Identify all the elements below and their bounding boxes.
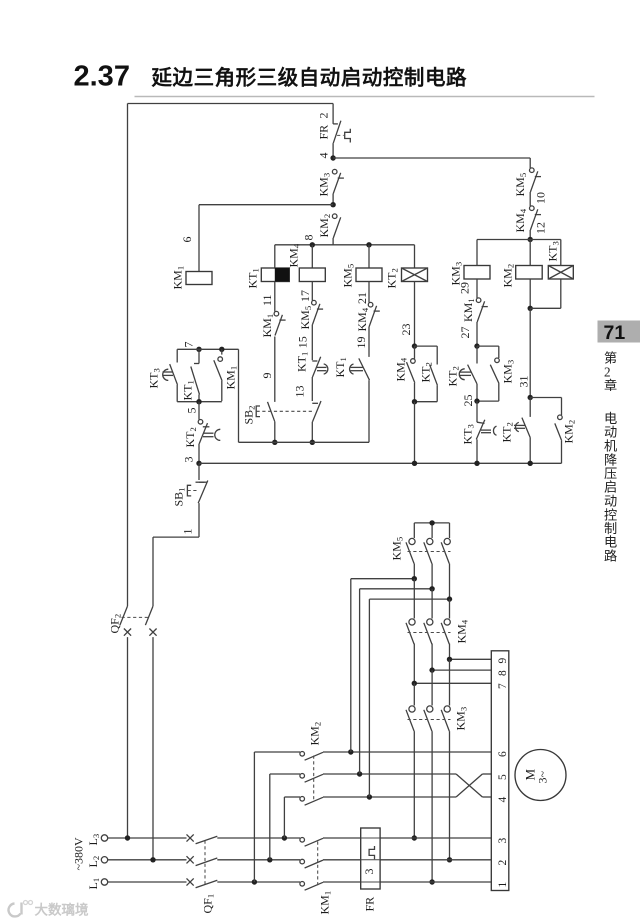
contactor KM2 main contacts bbox=[254, 722, 323, 805]
NC contact linked to SB2 (13) bbox=[312, 401, 321, 442]
terminal block bbox=[491, 651, 509, 891]
wire phase L2 segment 3 bbox=[323, 859, 491, 861]
svg-text:8: 8 bbox=[302, 235, 316, 241]
wire terminal 7 bbox=[414, 644, 491, 684]
NO contact KM2 parallel seal bbox=[530, 398, 576, 464]
junction KM5-KM4 right bbox=[447, 596, 452, 601]
NC delay contact KT1 (19) bbox=[333, 337, 370, 443]
wire bus above coils KM3 KM2 KT3 bbox=[477, 239, 561, 241]
wire riser to KM5 left bbox=[350, 579, 352, 752]
wire phase L1 segment 2 bbox=[217, 881, 300, 883]
junction node 27 bbox=[474, 343, 479, 348]
wire phase L3 segment 1 bbox=[108, 837, 187, 839]
wire KM3 right to L2 bbox=[449, 731, 451, 860]
junction bus8 at KM4 coil bbox=[310, 242, 315, 247]
junction node 5 bbox=[185, 399, 202, 414]
svg-text:31: 31 bbox=[517, 376, 531, 388]
NC contact KM4 parallel branch bbox=[394, 346, 416, 402]
svg-text:动: 动 bbox=[604, 494, 617, 509]
svg-text:动: 动 bbox=[604, 425, 617, 440]
svg-text:3: 3 bbox=[362, 869, 376, 875]
svg-text:2: 2 bbox=[497, 860, 509, 866]
circuit breaker QF2 bbox=[108, 606, 157, 636]
NO contact KM5 (10) on right branch bbox=[513, 158, 548, 206]
wire node23 to bus bbox=[414, 402, 416, 464]
svg-text:10: 10 bbox=[534, 192, 548, 204]
wire KM3 left to L3 bbox=[413, 731, 415, 838]
svg-text:1: 1 bbox=[181, 529, 195, 535]
thermal relay FR heater box bbox=[361, 828, 380, 912]
NO contact KM1 (11) under KT1 coil bbox=[260, 282, 286, 402]
wire bus8 drop to KT1 coil bbox=[274, 245, 276, 268]
junction SB1 rail on L2 bbox=[150, 857, 155, 862]
supply terminal L1 bbox=[86, 878, 108, 890]
junction contact13 bottom bbox=[310, 440, 315, 445]
supply terminal L3 bbox=[86, 834, 108, 846]
NC delay contact KT2 (node5 to node3) bbox=[183, 402, 220, 464]
watermark logo bbox=[9, 901, 89, 918]
NO contact KM1 self-seal parallel bbox=[177, 349, 238, 401]
svg-text:延边三角形三级自动启动控制电路: 延边三角形三级自动启动控制电路 bbox=[151, 66, 468, 90]
svg-text:机: 机 bbox=[604, 439, 617, 454]
svg-text:6: 6 bbox=[180, 237, 194, 243]
junction node7 KM1 branch bbox=[219, 347, 224, 352]
motor M 3~ bbox=[515, 750, 566, 801]
svg-text:15: 15 bbox=[295, 336, 309, 348]
time relay coil KT2 (box with X) bbox=[385, 268, 428, 289]
supply terminal L2 bbox=[86, 856, 108, 868]
wire phase L1 segment 1 bbox=[108, 881, 187, 883]
junction riser7 on wire6 bbox=[348, 749, 353, 754]
junction bus at rung23 bbox=[412, 461, 417, 466]
svg-text:5: 5 bbox=[185, 408, 199, 414]
junction KM3 middle on L1 bbox=[429, 879, 434, 884]
svg-text:大数璃境: 大数璃境 bbox=[35, 902, 89, 918]
wire top rail bbox=[128, 103, 334, 105]
wire terminal 9 bbox=[450, 644, 492, 660]
junction riser9 on wire4 bbox=[367, 794, 372, 799]
wire 6 from KM2 c1 to terminal 6 bbox=[323, 751, 491, 753]
junction node 6 bbox=[330, 202, 335, 207]
svg-text:2: 2 bbox=[317, 113, 331, 119]
wire left rail upper bbox=[127, 104, 129, 607]
wire crossover 4 to 5 bbox=[456, 774, 482, 797]
NO contact KM3 parallel right bbox=[477, 346, 516, 401]
contactor coil KM5 bbox=[341, 264, 383, 288]
junction node 23 bbox=[412, 343, 417, 348]
wire QF2 left pole down bbox=[127, 637, 129, 838]
svg-text:5: 5 bbox=[497, 774, 509, 780]
contact KT2 parallel branch bbox=[415, 346, 438, 402]
svg-text:4: 4 bbox=[317, 153, 331, 159]
wire SB1 to QF2 right pole bbox=[153, 536, 199, 538]
wire bus8 drop to KT2 coil bbox=[414, 245, 416, 268]
wire riser to KM5 right bbox=[368, 599, 370, 797]
NC delay contact KT3 (bottom of rung 27) bbox=[461, 401, 497, 463]
contactor coil KM4 bbox=[287, 243, 326, 281]
junction SB2 bottom bbox=[272, 440, 277, 445]
wire KT3 coil link bbox=[530, 307, 561, 309]
wire QF2 right pole down bbox=[152, 637, 154, 860]
thermal relay contact FR bbox=[317, 121, 351, 159]
contactor KM1 main contacts bbox=[300, 838, 333, 915]
contactor KM5 star contacts bbox=[390, 523, 451, 599]
wire FR rung top, node 2 bbox=[317, 104, 334, 121]
svg-text:17: 17 bbox=[298, 290, 312, 302]
junction bus at rung27 bbox=[474, 461, 479, 466]
svg-text:27: 27 bbox=[458, 327, 472, 339]
wire phase L2 segment 2 bbox=[217, 859, 300, 861]
wire KM2 riser c2 bbox=[269, 774, 271, 860]
junction node 31 bbox=[528, 395, 533, 400]
svg-text:FR: FR bbox=[317, 125, 331, 140]
svg-text:路: 路 bbox=[604, 549, 617, 564]
wire 5 from KM2 c2 bbox=[323, 773, 456, 775]
junction top of KM2 coil rung bbox=[528, 237, 533, 242]
svg-text:2.37: 2.37 bbox=[74, 61, 130, 93]
NC contact KT1 parallel bbox=[181, 349, 200, 401]
svg-text:6: 6 bbox=[497, 751, 509, 757]
svg-text:9: 9 bbox=[497, 658, 509, 664]
wire phase L3 segment 3 bbox=[323, 837, 491, 839]
junction riser8 on wire5 bbox=[357, 771, 362, 776]
wire KM3 middle to L1 bbox=[431, 731, 433, 882]
junction KM2 riser c1 on L1 bbox=[252, 879, 257, 884]
svg-text:第: 第 bbox=[604, 350, 617, 366]
NC delay contact KT1 (15) bbox=[293, 336, 328, 401]
junction node 23 bottom bbox=[412, 399, 417, 404]
contactor KM3 contacts bbox=[406, 659, 469, 731]
wire terminal 8 bbox=[432, 644, 491, 671]
svg-text:章: 章 bbox=[604, 377, 617, 393]
svg-text:25: 25 bbox=[461, 395, 475, 407]
svg-text:12: 12 bbox=[534, 222, 548, 234]
svg-text:~380V: ~380V bbox=[72, 837, 86, 870]
svg-text:3: 3 bbox=[497, 838, 509, 844]
contactor coil KM3 bbox=[449, 262, 491, 286]
pushbutton SB2 start bbox=[242, 402, 313, 442]
junction node 4 bbox=[330, 155, 335, 160]
wire down to node 31 bbox=[517, 308, 531, 397]
junction KM5-KM4 middle bbox=[429, 586, 434, 591]
junction node 25 bbox=[461, 395, 480, 407]
NC delay contact KT2 parallel left bbox=[446, 346, 478, 401]
svg-text:23: 23 bbox=[399, 324, 413, 336]
junction bus8 at KM5 coil bbox=[366, 242, 371, 247]
junction KM3 right on L2 bbox=[447, 857, 452, 862]
junction KM3 left on L3 bbox=[412, 835, 417, 840]
wire horizontal node4 to right branch bbox=[333, 157, 530, 159]
svg-text:7: 7 bbox=[182, 342, 196, 348]
svg-text:4: 4 bbox=[497, 797, 509, 803]
wire phase L2 segment 1 bbox=[108, 859, 187, 861]
NO contact KM4 (21) under KM5 coil bbox=[355, 282, 380, 357]
page number 71 box bbox=[598, 321, 640, 345]
wire node7 rail bbox=[177, 348, 238, 350]
svg-text:1: 1 bbox=[497, 882, 509, 888]
pushbutton SB1 stop bbox=[172, 463, 208, 537]
svg-text:启: 启 bbox=[604, 480, 617, 495]
junction KM5 bar bbox=[429, 520, 434, 525]
svg-text:19: 19 bbox=[354, 337, 368, 349]
time relay coil KT1 (half filled) bbox=[246, 268, 290, 289]
time relay coil KT3 (box with X) bbox=[477, 240, 573, 280]
wire KT2 coil to node 23 bbox=[399, 282, 415, 347]
NO contact KM3 self-seal on FR rung bbox=[317, 169, 344, 204]
wire bus8 drop to KM4 coil bbox=[311, 245, 313, 268]
wire node6 down to KM1 coil bbox=[180, 205, 199, 272]
wire link row y442 bbox=[239, 441, 370, 443]
junction left rail on L3 bbox=[125, 835, 130, 840]
contactor coil KM2 bbox=[501, 264, 543, 288]
wire crossover 5 to 4 bbox=[456, 774, 482, 797]
sidebar chapter text bbox=[604, 350, 617, 564]
contactor KM4 contacts bbox=[406, 579, 470, 644]
wire node7 drop branch bbox=[238, 349, 240, 442]
svg-text:FR: FR bbox=[363, 897, 377, 912]
junction KM5-KM4 left bbox=[412, 576, 417, 581]
svg-text:7: 7 bbox=[497, 683, 509, 689]
junction KT3 coil link bbox=[528, 306, 533, 311]
svg-text:71: 71 bbox=[604, 322, 626, 344]
wire node6 horizontal bbox=[199, 204, 333, 206]
wire 4 from KM2 c3 bbox=[323, 796, 456, 798]
wire bus node 8 bbox=[275, 235, 415, 245]
junction node 3 bbox=[182, 457, 202, 466]
wire KM2 riser c3 bbox=[283, 797, 285, 838]
title underline bbox=[135, 96, 595, 98]
wire riser to KM5 middle bbox=[359, 589, 361, 774]
svg-text:29: 29 bbox=[458, 282, 472, 294]
svg-text:9: 9 bbox=[260, 373, 274, 379]
svg-text:3~: 3~ bbox=[536, 771, 550, 784]
NO contact KM2 interlock on FR rung bbox=[317, 214, 341, 245]
junction term7 bbox=[412, 681, 417, 686]
NC delay contact KT3 parallel bbox=[147, 349, 178, 401]
svg-text:3: 3 bbox=[182, 457, 196, 463]
svg-text:8: 8 bbox=[497, 670, 509, 676]
wire control bottom bus bbox=[199, 462, 562, 464]
junction term8 bbox=[429, 667, 434, 672]
svg-text:13: 13 bbox=[293, 386, 307, 398]
wire phase L1 segment 3 bbox=[323, 881, 491, 883]
svg-text:21: 21 bbox=[355, 292, 369, 304]
wire KM2 riser c1 bbox=[253, 752, 255, 882]
NC delay contact KT2 (bottom of rung 31) bbox=[500, 398, 531, 464]
wire bus8 drop to KM5 coil bbox=[368, 245, 370, 268]
junction KM2 riser c2 on L2 bbox=[267, 857, 272, 862]
svg-text:11: 11 bbox=[260, 294, 274, 306]
circuit breaker QF1 bbox=[187, 834, 218, 913]
svg-text:电: 电 bbox=[604, 535, 617, 550]
NO contact KM5 (17) under KM4 coil bbox=[298, 282, 323, 361]
wire KM2 coil to node 31 bbox=[529, 279, 531, 308]
NO contact KM1 (29) under KM3 coil bbox=[458, 279, 488, 346]
junction KM2 riser c3 on L3 bbox=[282, 835, 287, 840]
junction bus at rung31 bbox=[528, 461, 533, 466]
junction term9 bbox=[447, 657, 452, 662]
NO contact KM4 (12) on right branch bbox=[513, 206, 548, 240]
wire phase L3 segment 2 bbox=[217, 837, 300, 839]
junction node 7 bbox=[182, 342, 202, 352]
contactor coil KM1 bbox=[171, 266, 213, 290]
